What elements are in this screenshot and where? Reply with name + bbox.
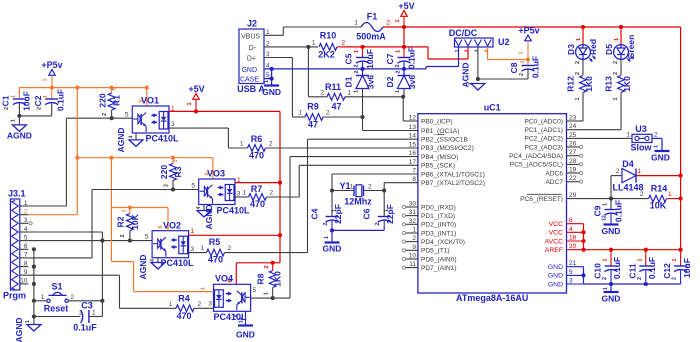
svg-text:2: 2 [395,64,401,67]
svg-text:PD0_(RXD): PD0_(RXD) [421,204,456,211]
svg-text:ATmega8A-16AU: ATmega8A-16AU [456,293,528,303]
svg-text:PC410L: PC410L [216,206,250,216]
svg-text:GND: GND [651,153,670,163]
svg-text:2: 2 [102,113,108,116]
junction C12 top [679,248,683,252]
svg-text:R4: R4 [178,294,190,304]
junction riser S1 [100,299,104,303]
svg-text:PC4_(ADC4/SDA): PC4_(ADC4/SDA) [509,153,563,160]
label VO2 pin5 [145,234,149,241]
svg-text:5: 5 [253,287,257,294]
svg-text:PC5_(ADC5/SCL): PC5_(ADC5/SCL) [510,162,563,169]
svg-text:GND: GND [323,244,342,254]
svg-text:1: 1 [264,80,270,83]
wire S1 row [34,300,103,302]
svg-text:3v6: 3v6 [407,75,417,89]
wire VO1 pin6 (orange drop) [146,88,148,106]
junction C10 bottom [609,282,613,286]
wire J3.1 pin7 to VO3 riser [28,190,92,258]
junction VO3 pin1 riser [278,181,282,185]
junction crystal left [330,188,334,192]
svg-text:PD2_(INT0): PD2_(INT0) [421,222,456,229]
wire F1 to +5V rail [383,26,404,28]
svg-text:1: 1 [173,159,179,162]
switch S1 Reset [41,282,75,314]
svg-text:D+: D+ [247,56,256,63]
wire C12 bottom corner [680,283,682,285]
svg-text:2: 2 [654,132,658,139]
wire PB6 to crystal [332,174,418,191]
junction C11 bottom [644,282,648,286]
wire orange to VO4 pin1 [111,208,213,292]
resistor R2 10K [116,208,141,241]
svg-text:1: 1 [11,95,17,98]
svg-text:470: 470 [208,255,223,265]
connector J2 USB A [237,19,270,95]
wire J3.1 pin1 [28,205,66,207]
svg-text:2: 2 [326,110,330,117]
junction VO2 pin1 riser [278,233,282,237]
svg-text:1: 1 [242,190,246,197]
svg-text:VCC: VCC [549,221,563,228]
svg-text:R13: R13 [604,76,614,92]
svg-text:GND: GND [548,281,563,288]
svg-text:6: 6 [205,172,211,175]
svg-text:12: 12 [602,215,608,221]
label VO1 pin3 [171,121,175,128]
svg-text:PB7_(XTAL2/TOSC2): PB7_(XTAL2/TOSC2) [421,180,485,187]
wire C4-C6 gnd [332,230,384,242]
svg-text:PB4_(MISO): PB4_(MISO) [421,154,458,161]
svg-text:2: 2 [120,234,126,237]
capacitor C5 10uF [344,47,376,69]
svg-text:17: 17 [409,159,417,166]
wire R5 riser to PB2 [308,139,418,252]
power flag +P5v (U2) [518,26,539,60]
svg-text:10: 10 [20,278,28,285]
svg-text:PD1_(TXD): PD1_(TXD) [421,213,455,220]
wire to PB0 [403,97,418,121]
wire +5V drop [403,27,405,47]
svg-text:0.1uF: 0.1uF [647,257,657,279]
wire orange rail3 y=207.5 [111,158,168,231]
svg-text:2: 2 [575,61,581,64]
svg-text:R14: R14 [651,184,668,194]
svg-text:1: 1 [25,320,31,323]
svg-text:22pF: 22pF [385,204,395,224]
svg-text:GND: GND [548,273,563,280]
wire VO2 pin5 row (J3.1 p5) [28,240,152,242]
junction +5V rail D3 [581,25,585,29]
svg-text:R2: R2 [116,216,126,227]
junction R1 bottom [110,116,114,120]
uC1 GND pins [548,260,584,288]
uC1 right PC pin stubs [509,115,582,187]
svg-text:USB A: USB A [237,84,265,94]
svg-text:5: 5 [125,112,129,119]
svg-text:R9: R9 [307,102,319,112]
svg-text:1: 1 [626,132,630,139]
svg-text:R7: R7 [251,184,263,194]
svg-text:3: 3 [191,246,195,253]
junction C5 bottom [360,67,364,71]
junction crystal right [382,188,386,192]
svg-text:PB0_(ICP): PB0_(ICP) [421,118,453,125]
svg-text:1: 1 [455,49,461,52]
uC1 left PD pin stubs (nc) [402,201,465,272]
svg-text:5: 5 [24,234,28,241]
capacitor C4 22pF [310,191,344,231]
svg-text:1: 1 [41,294,45,301]
svg-text:1: 1 [43,95,49,98]
svg-text:1: 1 [354,20,358,27]
svg-text:J2: J2 [247,19,257,29]
wire AGND to C8 [478,78,528,80]
wire +5V rail top [404,26,681,28]
resistor R7 470 [235,184,299,209]
svg-text:PC2_(ADC2): PC2_(ADC2) [525,136,563,143]
wire J3.1 pin9 to R4 [28,275,176,308]
power flag +P5v (top left) [41,60,62,88]
wire VO3 pin4 stub [203,205,205,211]
junction rail2 drop [109,156,113,160]
svg-text:D3: D3 [566,44,576,55]
svg-text:10K: 10K [650,201,667,211]
svg-text:C8: C8 [509,62,519,73]
svg-text:D-: D- [249,45,257,52]
svg-text:1K0: 1K0 [273,271,283,287]
junction R2 bottom [128,239,132,243]
ground AGND (below VO1) [116,127,143,152]
svg-text:0.1uF: 0.1uF [56,89,66,111]
svg-text:14: 14 [239,318,245,324]
svg-text:PB6_(XTAL1/TOSC1): PB6_(XTAL1/TOSC1) [421,171,485,178]
svg-text:10uF: 10uF [365,49,375,69]
LED D3 Red [566,38,598,64]
capacitor C2 0.1uF [33,88,66,116]
wire reset to R14 [611,198,649,200]
svg-text:0.1uF: 0.1uF [73,323,97,333]
svg-text:VO4: VO4 [215,274,233,284]
svg-text:GND: GND [241,67,257,74]
svg-text:1: 1 [240,141,244,148]
label VO2 pin3 [191,246,195,253]
resistor R14 10K [640,184,681,211]
svg-text:2: 2 [270,190,274,197]
wire VO3 pin5 row [92,189,199,191]
svg-text:2: 2 [198,301,202,308]
wire VO1 pin5 row [66,117,132,119]
resistor R13 1K0 [604,72,632,130]
junction rail2 left [75,156,79,160]
svg-text:R10: R10 [320,31,337,41]
svg-text:D1: D1 [344,76,354,87]
svg-text:1: 1 [576,38,582,41]
svg-text:1: 1 [603,203,609,206]
svg-text:1: 1 [575,97,581,100]
resistor R3 220 [159,158,183,190]
svg-text:470: 470 [176,311,191,321]
label VO1 pin5 [125,112,129,119]
svg-text:1K0: 1K0 [584,76,594,92]
svg-text:2: 2 [4,107,10,110]
svg-text:2: 2 [354,70,360,73]
wire GND rail bottom [584,283,681,285]
svg-text:4: 4 [234,314,240,317]
wire +P5v rail (orange, y=87.6) [19,88,146,95]
svg-text:Red: Red [588,39,598,55]
svg-text:R11: R11 [325,82,341,92]
capacitor C9 0.1uF [593,199,624,224]
svg-text:1: 1 [395,19,401,22]
svg-text:PB2_(SS/OC1B: PB2_(SS/OC1B [421,137,469,144]
svg-text:C9: C9 [593,205,603,216]
junction +P5v stem [50,86,54,90]
optocoupler VO3 PC410L [199,169,250,216]
svg-text:1: 1 [43,78,49,81]
svg-text:470: 470 [249,151,264,161]
svg-text:14: 14 [409,133,417,140]
label VO2 pin6 [158,225,164,228]
resistor R11 47 [308,82,403,112]
capacitor C10 0.1uF [593,250,623,284]
svg-text:22pF: 22pF [333,204,343,224]
svg-text:500mA: 500mA [356,32,386,42]
uC1 left PB pin labels [409,115,485,188]
svg-text:C7: C7 [385,53,395,64]
svg-text:C12: C12 [662,263,672,279]
svg-text:PB3_(MOSI/OC2): PB3_(MOSI/OC2) [421,145,474,152]
svg-text:AVCC: AVCC [545,238,563,245]
junction bus C3 row [32,314,36,318]
label VO4 pin1 [201,287,207,290]
wire D4 to +5V rail [636,175,681,177]
wire R11 drop [307,47,309,97]
svg-text:47: 47 [331,102,341,112]
svg-text:1: 1 [638,168,642,175]
svg-text:AGND: AGND [14,317,24,342]
svg-text:7: 7 [24,252,28,259]
junction rail D4 [679,174,683,178]
svg-text:Green: Green [626,35,636,60]
wire AREF rail [584,249,681,251]
svg-text:1: 1 [672,258,678,261]
svg-text:GND: GND [602,294,621,304]
svg-text:2: 2 [71,294,75,301]
svg-text:R1: R1 [112,95,122,106]
wire red jog to VO4 pin6 [236,263,280,285]
svg-text:1: 1 [354,90,360,93]
svg-text:R12: R12 [566,76,576,92]
resistor R5 470 [189,237,308,265]
svg-text:5: 5 [191,183,195,190]
junction bus S1 row [32,299,36,303]
svg-text:VBUS: VBUS [241,33,260,40]
ground GND (C9) [602,225,621,237]
label VO1 pin1 [171,106,175,113]
junction reset node [609,197,613,201]
wire VO1 pin3 [169,128,228,148]
wire PC0 row to R12 [580,120,584,122]
wire VCC chain [583,224,585,250]
svg-text:1: 1 [332,209,338,212]
svg-text:2: 2 [368,184,372,191]
svg-text:1: 1 [348,90,352,97]
svg-text:AGND: AGND [204,204,214,229]
junction C4 gnd [330,228,334,232]
svg-text:U2: U2 [498,37,510,47]
capacitor C1 10uF [1,90,32,116]
svg-text:2: 2 [396,70,402,73]
svg-text:1: 1 [169,301,173,308]
junction GND5 [581,273,585,277]
svg-text:2: 2 [613,61,619,64]
svg-text:2: 2 [613,72,619,75]
wire C1-C2 bottoms [19,116,51,125]
svg-text:1: 1 [668,191,672,198]
svg-text:12Mhz: 12Mhz [344,197,372,207]
nc J3.1 pin3 [29,222,32,225]
svg-text:2: 2 [264,265,270,268]
svg-text:PC3_(ADC3): PC3_(ADC3) [525,144,563,151]
op-amp?? no - optocoupler VO1 PC410L [132,96,179,144]
diode D1 3v6 (zener) [344,69,376,117]
junction R8 bottom [271,296,275,300]
capacitor C6 22pF [362,191,396,231]
junction bus pin10 [32,282,36,286]
svg-text:1: 1 [395,90,401,93]
junction C5 top [360,45,364,49]
connector J3.1 (Prgm) [3,189,28,301]
svg-text:ADC7: ADC7 [545,179,563,186]
wire VO2 pin4 stub [157,258,159,263]
junction +5V rail D5 [619,25,623,29]
junction rail3 R2 [128,205,132,209]
svg-text:13: 13 [409,124,417,131]
svg-text:PC6_(RESET): PC6_(RESET) [520,196,563,203]
svg-text:1: 1 [24,200,28,207]
wire R7 riser to PB5 [299,165,418,197]
crystal Y1 12Mhz [339,181,372,207]
svg-text:PD5_(T1): PD5_(T1) [421,248,450,255]
label VO4 pin4 [234,314,240,317]
ground AGND bottom left [14,317,41,342]
svg-text:2: 2 [616,168,620,175]
svg-text:8: 8 [24,260,28,267]
junction bus pin8 [32,265,36,269]
svg-text:4: 4 [129,135,135,138]
junction AREF [581,248,585,252]
ground GND (caps) [602,287,621,304]
wire +5V right rail [680,27,682,250]
junction +5V stem [194,109,198,113]
power flag +5V (near VO1) [187,84,205,111]
junction C8 top [526,57,530,61]
ground AGND below VO3 [197,204,214,229]
svg-text:1: 1 [191,228,195,235]
svg-text:ADC6: ADC6 [545,170,563,177]
svg-text:1: 1 [613,97,619,100]
svg-text:2: 2 [640,191,644,198]
wire red rail y=46.9 [341,47,468,59]
LED D5 Green [604,35,636,64]
svg-text:0.1uF: 0.1uF [407,47,417,69]
svg-text:1: 1 [519,51,525,54]
svg-text:2: 2 [354,64,360,67]
svg-text:VO1: VO1 [141,96,159,106]
svg-text:1: 1 [298,110,302,117]
ground GND (U3) [651,145,670,163]
wire U2 pin4 orange [488,47,528,60]
wire VO1 pin4 stub [135,133,137,140]
junction J3.1 pin4/pin5 [100,239,104,243]
junction VCC4 [581,230,585,234]
svg-text:2: 2 [672,277,678,280]
svg-text:1: 1 [312,40,316,47]
svg-text:12: 12 [409,115,417,122]
wire C3 row [34,316,81,318]
svg-text:1: 1 [520,60,526,63]
junction R1 top [110,86,114,90]
svg-text:PB5_(SCK): PB5_(SCK) [421,163,455,170]
svg-text:+5V: +5V [398,1,414,11]
junction C7/+5V drop [402,45,406,49]
svg-text:2: 2 [164,184,170,187]
ground GND (crystal) [323,236,342,254]
optocoupler VO2 PC410L [152,221,194,269]
svg-text:Prgm: Prgm [3,291,26,301]
svg-text:F1: F1 [367,12,378,22]
svg-text:10uF: 10uF [682,258,692,278]
svg-text:C4: C4 [310,208,320,219]
svg-text:1K0: 1K0 [622,76,632,92]
svg-text:2: 2 [37,107,43,110]
svg-text:C11: C11 [627,263,637,278]
uC1 PC6 reset pin [520,192,611,203]
wire D5 anode [620,27,622,44]
svg-text:DC/DC: DC/DC [449,28,478,38]
svg-text:1: 1 [637,258,643,261]
svg-text:4: 4 [24,226,28,233]
wire to PB1 [363,117,418,131]
svg-text:PC410L: PC410L [145,134,179,144]
junction P5v rail pin2 [75,86,79,90]
wire bus to AGND [33,315,35,317]
svg-text:2K2: 2K2 [318,50,335,60]
svg-text:2: 2 [79,310,83,317]
svg-text:10uF: 10uF [22,91,32,111]
svg-text:1: 1 [603,258,609,261]
svg-text:47: 47 [308,120,318,130]
svg-text:AGND: AGND [461,62,471,87]
svg-text:4: 4 [196,206,202,209]
svg-text:D2: D2 [385,76,395,87]
svg-text:R3: R3 [173,166,183,177]
wire D- row [264,46,318,48]
svg-text:R6: R6 [251,134,263,144]
svg-text:PC1_(ADC1): PC1_(ADC1) [525,127,563,134]
svg-text:3: 3 [171,121,175,128]
svg-text:1: 1 [92,310,96,317]
svg-text:2: 2 [342,40,346,47]
svg-text:2: 2 [637,277,643,280]
svg-text:220: 220 [98,93,108,107]
svg-text:PC410L: PC410L [160,258,194,268]
svg-text:GND: GND [236,330,255,340]
junction D- node [306,45,310,49]
label VO3 pin1 [237,177,241,184]
wire CASE to GND [264,69,272,86]
